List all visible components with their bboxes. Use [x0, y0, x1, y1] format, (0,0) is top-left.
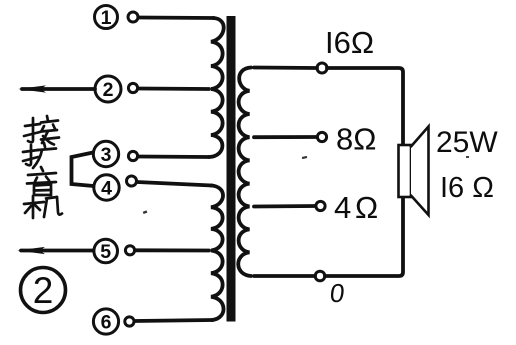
svg-text:8Ω: 8Ω — [336, 122, 376, 157]
transformer primary winding lower section (taps 4,5,6) — [211, 186, 224, 321]
terminal 6 contact circle — [125, 317, 134, 326]
svg-text:2: 2 — [33, 270, 54, 311]
secondary 4-ohm tap circle — [316, 201, 325, 210]
label 4 ohm — [334, 190, 378, 225]
secondary 16-ohm tap wire — [254, 66, 317, 70]
terminal 2 contact circle — [128, 83, 137, 92]
svg-text:25W: 25W — [436, 126, 498, 159]
wire terminal 3 to primary tap — [138, 155, 209, 159]
scan speck near 8-ohm wire — [302, 156, 307, 159]
speaker LS1 — [399, 127, 429, 216]
secondary 0 tap wire — [254, 274, 315, 278]
transformer secondary winding — [238, 68, 251, 277]
wire terminal 5 to primary tap — [135, 248, 209, 252]
wire terminal 1 to primary top — [139, 16, 215, 20]
secondary 4-ohm tap wire — [254, 204, 316, 208]
annotation: Chinese character "yin" (sound) — [27, 167, 56, 195]
annotation: Chinese character "jie" (connect) — [24, 116, 59, 145]
secondary 0 tap circle — [315, 271, 325, 281]
terminal 1 contact circle — [128, 12, 138, 22]
terminal 4 contact circle — [127, 176, 137, 186]
wire terminal 5 lead-out with arrow — [17, 247, 93, 254]
svg-text:4: 4 — [101, 178, 112, 200]
terminal 3 contact circle — [128, 151, 137, 160]
svg-text:4: 4 — [334, 190, 351, 225]
secondary 16-ohm tap circle — [317, 63, 327, 73]
secondary 8-ohm tap wire — [254, 135, 317, 139]
wire terminal 4 to primary tap — [137, 182, 212, 186]
terminal 5 contact circle — [125, 246, 134, 255]
terminal 5 — [94, 239, 118, 263]
terminal 2 — [95, 76, 121, 102]
wire terminal 2 to primary tap — [138, 87, 209, 91]
terminal 1 — [95, 6, 118, 30]
bracket joining terminals 3 and 4 to amplifier note — [72, 153, 94, 187]
svg-text:1: 1 — [101, 7, 112, 29]
terminal 3 — [93, 141, 118, 166]
scan speck above speaker label — [466, 156, 469, 158]
transformer primary winding upper section (taps 1,2,3) — [209, 18, 224, 157]
wire terminal 2 lead-out with arrow — [18, 85, 95, 92]
wire 16-ohm tap to speaker (top) — [327, 68, 403, 145]
wire 0 tap to speaker (bottom) — [325, 197, 403, 276]
terminal 6 — [93, 309, 118, 334]
svg-text:6: 6 — [101, 312, 112, 334]
scan speck below terminal 4 — [143, 210, 148, 214]
svg-text:3: 3 — [101, 144, 112, 166]
svg-text:Ω: Ω — [355, 190, 378, 225]
svg-text:2: 2 — [103, 79, 114, 101]
wire terminal 6 to primary bottom — [134, 320, 213, 321]
transformer core — [227, 16, 236, 322]
figure number 2 — [21, 268, 66, 313]
secondary 8-ohm tap circle — [317, 132, 326, 141]
terminal 4 — [94, 175, 119, 200]
svg-text:I6Ω: I6Ω — [325, 25, 374, 60]
annotation: Chinese character "ji" (machine) — [24, 196, 62, 218]
annotation: Chinese character "kuo" (amplify) — [23, 143, 56, 168]
svg-text:I6 Ω: I6 Ω — [440, 172, 494, 204]
svg-text:0: 0 — [329, 278, 347, 308]
svg-text:5: 5 — [100, 241, 111, 263]
